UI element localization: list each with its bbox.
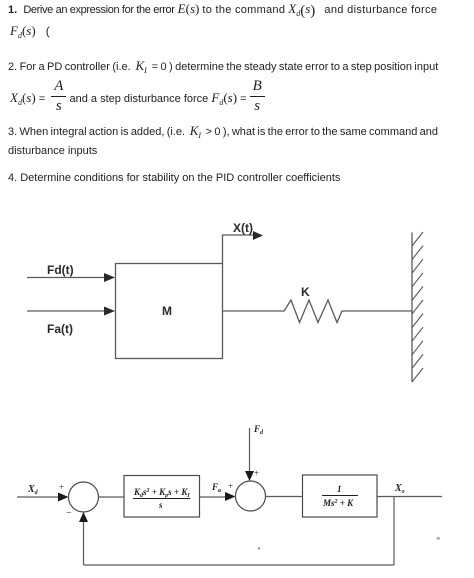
question 2 line 1 [8,59,438,74]
svg-text:Ms2 + K: Ms2 + K [322,498,354,508]
plant block 1/(Ms^2+K) [303,475,378,517]
PID controller block [124,476,200,518]
svg-text:Xo: Xo [394,483,405,495]
disturbance arrow Fd [245,428,254,481]
wire S1 to PID block [99,496,125,498]
question 3 line 2 [8,145,97,158]
feedback wire up to S1 [79,512,88,565]
question 3 line 1 [8,124,438,139]
feedback wire down [393,497,395,566]
svg-text:Xd: Xd [27,484,39,496]
spring K [223,300,412,323]
svg-text:+: + [254,468,259,478]
svg-text:1: 1 [337,484,342,494]
wire S2 to plant block [266,496,303,498]
svg-text:+: + [228,481,233,491]
svg-text:+: + [59,482,64,492]
force arrow Fd(t) [27,273,115,282]
summing junction S1 [69,482,99,512]
wire PID to summing junction S2 [200,492,236,501]
question 4 [8,172,340,185]
force arrow Fa(t) [27,307,115,316]
svg-text:s: s [158,500,163,510]
block M [116,264,223,359]
summing junction S2 [236,481,266,511]
svg-text:Fa: Fa [211,482,221,494]
feedback wire bottom [84,564,395,566]
svg-text:Kds2 + Kps + KI: Kds2 + Kps + KI [133,487,190,499]
svg-text:−: − [66,508,72,519]
wire X(t) output [223,231,264,264]
output wire [377,496,442,498]
svg-text:Fd: Fd [253,424,264,436]
question 1 line 2 [10,24,50,38]
stray mark [437,537,440,540]
wire input to summing junction S1 [17,493,69,502]
PID transfer function label [133,487,191,510]
wall [412,232,423,382]
plant transfer function label [322,484,358,508]
question 1 line 1 [8,2,437,18]
question 2 line 2 with fractions [10,79,265,114]
stray mark [258,547,261,550]
